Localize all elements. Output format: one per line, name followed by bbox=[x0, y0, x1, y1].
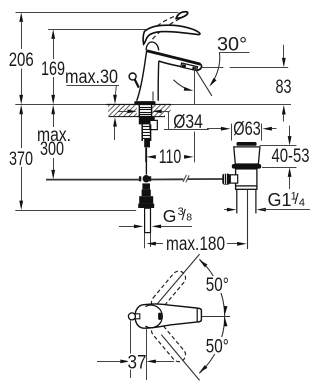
svg-text:206: 206 bbox=[9, 50, 34, 71]
50deg lower line bbox=[161, 335, 199, 381]
body inner line near base bbox=[152, 92, 154, 101]
drain tailpipe bbox=[236, 190, 238, 214]
50deg upper line bbox=[157, 254, 200, 305]
30 degree diagonal line bbox=[193, 66, 212, 96]
faucet dashed raised lever bbox=[147, 14, 181, 37]
rod knob (knurled) bbox=[222, 174, 230, 185]
ref line 169 level bbox=[48, 29, 148, 31]
svg-text:83: 83 bbox=[276, 77, 292, 98]
arc arrowheads bbox=[198, 258, 208, 267]
shank tip bbox=[144, 139, 150, 147]
rod stem box bbox=[230, 175, 237, 183]
drain body bbox=[236, 169, 257, 186]
G3/8 nut bbox=[139, 196, 153, 204]
svg-text:110: 110 bbox=[159, 147, 182, 168]
svg-text:169: 169 bbox=[41, 59, 65, 80]
hose nipple bbox=[150, 120, 157, 129]
deck hatching left of hole bbox=[108, 105, 137, 116]
svg-text:300: 300 bbox=[40, 139, 64, 160]
lower threaded rod bbox=[142, 124, 151, 141]
rod coupling ball bbox=[143, 175, 150, 182]
svg-text:37: 37 bbox=[128, 352, 147, 373]
30 degree reference vertical bbox=[194, 68, 196, 104]
G3/8 flange bbox=[138, 204, 154, 208]
dashed lever +50 bbox=[149, 268, 189, 312]
aerator bbox=[181, 63, 198, 71]
svg-text:G: G bbox=[163, 206, 177, 226]
dimension 110 bbox=[146, 147, 194, 168]
label O34 with leader bbox=[119, 110, 211, 134]
deck bottom line bbox=[109, 116, 171, 118]
drain lip bbox=[232, 164, 261, 169]
lever dome cap bbox=[146, 42, 159, 50]
lever tip inner line bbox=[196, 308, 198, 321]
faucet lever (solid) bbox=[143, 25, 200, 44]
deck hatching right of hole bbox=[152, 105, 170, 116]
logo mark bbox=[158, 313, 162, 320]
centerline right bbox=[201, 316, 230, 318]
aerator level line (83) bbox=[201, 67, 223, 69]
top view body + lever bbox=[135, 304, 201, 328]
svg-text:8: 8 bbox=[186, 212, 192, 224]
svg-text:40-53: 40-53 bbox=[272, 146, 310, 167]
faucet body right edge bbox=[157, 61, 160, 101]
hose end line (370 level) bbox=[15, 210, 136, 212]
faucet body left edge bbox=[137, 51, 147, 101]
svg-text:370: 370 bbox=[9, 149, 33, 170]
dimension G1 1/4 bbox=[224, 190, 310, 212]
ref line top (206 level) bbox=[16, 12, 179, 14]
label 50deg top bbox=[203, 275, 230, 296]
spout tip face bbox=[197, 64, 202, 71]
faucet base plate bbox=[134, 101, 155, 105]
pull rod knob bbox=[129, 73, 136, 80]
svg-text:G1: G1 bbox=[268, 190, 292, 210]
pop-up rod horizontal bbox=[46, 179, 140, 181]
dimension O63 bbox=[207, 119, 277, 140]
rod break slash bbox=[183, 175, 186, 182]
label 50deg bottom bbox=[203, 337, 230, 358]
supply tube bbox=[145, 208, 151, 232]
dimension G3/8 bbox=[119, 206, 192, 229]
30 degree right arc bbox=[211, 52, 220, 84]
pull rod stem bbox=[135, 80, 139, 88]
aerator knob (top view) bbox=[135, 314, 140, 319]
svg-text:50°: 50° bbox=[206, 275, 229, 296]
label max.30 with leader bbox=[65, 67, 119, 140]
dimension 370 bbox=[9, 105, 33, 210]
dimension 40-53 bbox=[260, 126, 310, 189]
dimension max.180 bbox=[145, 233, 247, 255]
30 degree left arc bbox=[173, 80, 190, 91]
dimension 37 bbox=[97, 321, 174, 381]
cartridge ring arc bbox=[145, 305, 162, 328]
spout underside bbox=[159, 61, 182, 67]
dashed lever -50 bbox=[149, 321, 189, 365]
hose block bbox=[142, 183, 150, 189]
drain center rod bbox=[247, 190, 249, 250]
svg-text:Ø34: Ø34 bbox=[173, 112, 203, 133]
drain plug top bbox=[237, 142, 257, 146]
dimension 206 bbox=[9, 12, 34, 104]
pull rod (vertical) bbox=[145, 148, 147, 175]
drain flange bbox=[234, 147, 260, 164]
spout top edge bbox=[146, 51, 200, 64]
svg-text:Ø63: Ø63 bbox=[233, 119, 261, 140]
svg-text:50°: 50° bbox=[206, 337, 229, 358]
deck top line bbox=[15, 104, 291, 106]
mounting nut bbox=[139, 117, 155, 125]
dimension max.300 bbox=[37, 105, 71, 180]
threaded shank through deck bbox=[139, 105, 151, 117]
drain body bottom bar bbox=[236, 186, 257, 189]
svg-text:max.30: max.30 bbox=[65, 67, 118, 88]
dimension 169 bbox=[41, 29, 65, 104]
svg-text:4: 4 bbox=[299, 197, 305, 209]
dashed lever tip curl bbox=[176, 12, 188, 19]
svg-text:max.180: max.180 bbox=[166, 234, 225, 255]
50deg swing arc bbox=[199, 259, 224, 373]
dimension 83 bbox=[276, 45, 292, 122]
